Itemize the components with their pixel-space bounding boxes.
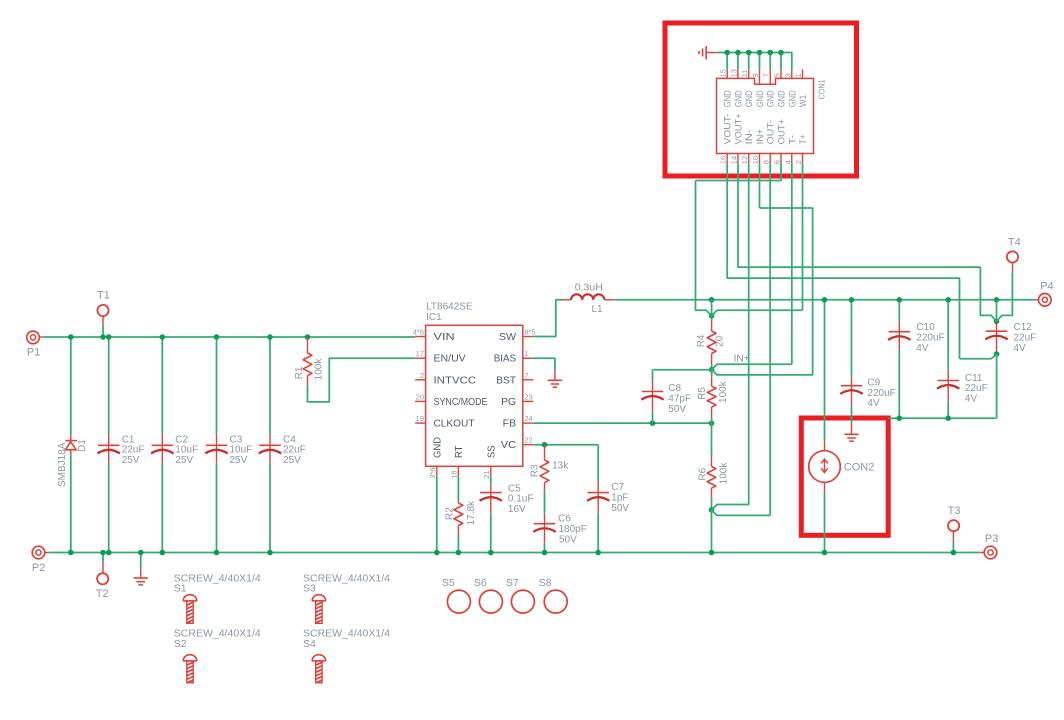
screw S1 <box>174 573 261 624</box>
svg-text:S8: S8 <box>539 577 552 589</box>
op-amp U1 IC1 LT8642SE body <box>426 302 523 467</box>
svg-text:10: 10 <box>751 156 760 164</box>
svg-text:14: 14 <box>729 156 738 164</box>
svg-text:25V: 25V <box>175 455 193 466</box>
svg-text:18: 18 <box>450 470 459 478</box>
mount hole S5 <box>442 577 471 613</box>
svg-text:T2: T2 <box>96 588 109 600</box>
svg-text:SCREW_4/40X1/4: SCREW_4/40X1/4 <box>303 573 390 585</box>
screw S3 <box>303 573 390 624</box>
svg-text:2: 2 <box>420 371 424 380</box>
svg-text:BIAS: BIAS <box>494 354 517 365</box>
svg-text:S6: S6 <box>474 577 487 589</box>
svg-text:CON2: CON2 <box>844 461 875 473</box>
svg-text:S3: S3 <box>303 583 316 595</box>
node R4 top funnel <box>696 181 803 319</box>
svg-text:C12: C12 <box>1014 322 1033 333</box>
wire VOUT+ net (pin14) <box>738 163 980 267</box>
node C12 top funnel <box>980 267 1012 324</box>
wire FB net <box>533 420 714 426</box>
svg-text:P3: P3 <box>985 533 998 545</box>
svg-text:50V: 50V <box>668 404 686 415</box>
svg-text:GND: GND <box>777 90 787 107</box>
svg-text:7: 7 <box>524 371 528 380</box>
svg-text:12: 12 <box>740 156 749 164</box>
svg-text:D1: D1 <box>77 439 88 452</box>
svg-text:17: 17 <box>416 349 424 358</box>
svg-text:50V: 50V <box>559 534 577 545</box>
svg-text:S1: S1 <box>174 583 187 595</box>
svg-text:S5: S5 <box>442 577 455 589</box>
connector P3 <box>980 533 999 559</box>
capacitor C5 0.1uF <box>480 477 534 556</box>
svg-text:GND: GND <box>733 90 743 107</box>
svg-text:T+: T+ <box>798 134 808 144</box>
screw S4 <box>303 628 390 683</box>
capacitor C11 22uF <box>937 297 988 421</box>
svg-text:1pF: 1pF <box>611 492 628 503</box>
svg-text:VOUT-: VOUT- <box>723 113 733 144</box>
svg-text:R4: R4 <box>696 334 707 347</box>
svg-text:100k: 100k <box>314 358 325 381</box>
svg-text:FB: FB <box>503 419 517 430</box>
svg-text:VOUT+: VOUT+ <box>733 113 743 144</box>
test point T3 <box>948 505 961 555</box>
svg-text:C1: C1 <box>122 434 135 445</box>
capacitor C3 <box>205 334 252 555</box>
ground GND4 at CON1 <box>699 46 717 59</box>
svg-text:GND: GND <box>755 90 765 107</box>
svg-text:13: 13 <box>729 69 738 77</box>
svg-text:4*6: 4*6 <box>413 328 424 337</box>
svg-text:P1: P1 <box>27 347 40 359</box>
svg-text:P4: P4 <box>1040 281 1053 293</box>
svg-text:25V: 25V <box>283 455 301 466</box>
CON2 highlight box <box>801 418 888 535</box>
svg-text:S2: S2 <box>174 638 187 650</box>
svg-text:EN/UV: EN/UV <box>434 354 467 365</box>
svg-text:24: 24 <box>524 414 532 423</box>
svg-text:4V: 4V <box>965 394 978 405</box>
wire VOUT to CON2 <box>822 297 828 440</box>
svg-text:R3: R3 <box>529 464 540 477</box>
svg-text:GND: GND <box>723 90 733 107</box>
svg-text:7: 7 <box>762 73 771 77</box>
svg-text:PG: PG <box>501 397 516 408</box>
diode D1 SMBJ18A <box>57 334 88 555</box>
connector P2 <box>32 546 49 574</box>
CON1 highlight box <box>665 23 857 176</box>
wire T- net (pin4) <box>791 163 793 364</box>
svg-text:IN+: IN+ <box>734 354 750 365</box>
wire OUT+ net (pin6) <box>696 163 782 180</box>
svg-text:R1: R1 <box>294 366 305 379</box>
svg-text:C5: C5 <box>508 483 521 494</box>
capacitor C4 <box>259 334 306 555</box>
connector P1 <box>27 331 44 359</box>
svg-text:16: 16 <box>719 156 728 164</box>
svg-text:R2: R2 <box>444 507 455 520</box>
svg-text:GND: GND <box>432 437 443 458</box>
svg-text:SS: SS <box>486 445 497 458</box>
svg-text:100k: 100k <box>718 380 729 403</box>
resistor R4 20 <box>696 316 726 370</box>
ground GND1 <box>134 550 148 585</box>
svg-text:GND: GND <box>744 90 754 107</box>
svg-text:22: 22 <box>524 436 532 445</box>
capacitor C9 220uF <box>840 297 895 423</box>
svg-text:0.3uH: 0.3uH <box>575 281 603 293</box>
svg-text:SMBJ18A: SMBJ18A <box>57 442 68 487</box>
svg-text:IC1: IC1 <box>426 312 442 323</box>
svg-text:P2: P2 <box>32 562 45 574</box>
test point T2 <box>96 550 109 600</box>
svg-text:4V: 4V <box>1014 343 1027 354</box>
svg-text:C9: C9 <box>867 377 880 388</box>
svg-text:SCREW_4/40X1/4: SCREW_4/40X1/4 <box>303 628 390 640</box>
svg-text:S7: S7 <box>506 577 519 589</box>
wire VOUT rail <box>614 299 1035 301</box>
svg-text:1: 1 <box>794 73 803 77</box>
svg-text:SCREW_4/40X1/4: SCREW_4/40X1/4 <box>174 573 261 585</box>
test point T4 <box>1007 237 1021 273</box>
svg-text:IN-: IN- <box>744 129 754 144</box>
connector CON1 body <box>717 78 827 153</box>
svg-text:C3: C3 <box>230 434 243 445</box>
IC1 right pins <box>494 328 536 452</box>
wire IN- net (pin12) <box>748 163 750 504</box>
svg-text:47pF: 47pF <box>668 393 691 404</box>
svg-text:3: 3 <box>783 73 792 77</box>
capacitor C10 220uF <box>888 297 945 421</box>
wire BIAS to ground <box>533 358 555 370</box>
svg-text:4V: 4V <box>867 398 880 409</box>
svg-text:VC: VC <box>501 440 516 451</box>
svg-text:22uF: 22uF <box>122 445 145 456</box>
svg-text:SW: SW <box>499 332 517 343</box>
wire IC1 GND pin <box>434 477 440 556</box>
wire OUT- net (pin8) <box>769 163 771 515</box>
svg-text:C10: C10 <box>916 322 935 333</box>
capacitor C2 <box>151 334 198 555</box>
svg-text:20: 20 <box>714 335 725 347</box>
wire VOUT- lower rail <box>888 417 996 419</box>
connector CON2 <box>809 440 875 492</box>
svg-text:C11: C11 <box>965 373 983 384</box>
svg-text:13k: 13k <box>552 460 569 471</box>
svg-text:22uF: 22uF <box>283 445 306 456</box>
svg-text:5: 5 <box>773 73 782 77</box>
svg-text:220uF: 220uF <box>916 332 944 343</box>
resistor R1 100k <box>294 334 325 385</box>
resistor R5 100k <box>697 370 729 424</box>
svg-text:C7: C7 <box>611 482 624 493</box>
svg-text:1: 1 <box>524 349 528 358</box>
svg-text:10uF: 10uF <box>175 445 198 456</box>
svg-text:INTVCC: INTVCC <box>434 375 477 386</box>
wire GND bottom rail <box>49 552 980 554</box>
connector P4 <box>1035 281 1054 307</box>
svg-text:OUT-: OUT- <box>766 119 776 144</box>
svg-text:17.8k: 17.8k <box>466 500 477 525</box>
wire SW to L1 <box>533 300 563 337</box>
ground GND2 at BIAS <box>548 370 562 387</box>
resistor R3 13k <box>529 445 569 514</box>
svg-text:25V: 25V <box>230 455 248 466</box>
svg-text:W1: W1 <box>798 95 808 108</box>
svg-text:IN+: IN+ <box>755 129 765 145</box>
svg-text:0.1uF: 0.1uF <box>508 494 534 505</box>
svg-text:180pF: 180pF <box>559 524 587 535</box>
wire VOUT- net (pin16) <box>727 163 959 358</box>
svg-text:4: 4 <box>783 160 792 164</box>
svg-text:T-: T- <box>787 135 797 145</box>
node C12 bottom funnel <box>960 354 997 418</box>
wire T+ net (pin2) <box>802 163 804 310</box>
svg-text:C2: C2 <box>175 434 188 445</box>
svg-text:T4: T4 <box>1008 237 1021 249</box>
svg-text:BST: BST <box>496 375 516 386</box>
svg-text:19: 19 <box>416 414 424 423</box>
svg-text:C6: C6 <box>558 514 571 525</box>
resistor R6 100k <box>698 423 730 510</box>
svg-text:21: 21 <box>482 470 491 478</box>
capacitor C12 22uF <box>985 321 1036 356</box>
mount hole S7 <box>506 577 535 613</box>
wire R1 to EN/UV <box>308 358 416 402</box>
svg-text:T1: T1 <box>97 289 110 301</box>
mount hole S8 <box>539 577 568 613</box>
svg-text:SYNC/MODE: SYNC/MODE <box>434 397 488 408</box>
inductor L1 0.3uH <box>561 281 614 315</box>
svg-text:GND: GND <box>787 90 797 107</box>
svg-text:CLKOUT: CLKOUT <box>434 419 475 430</box>
svg-text:23: 23 <box>524 392 532 401</box>
svg-text:GND: GND <box>766 90 776 107</box>
CON1 top pins <box>719 69 808 107</box>
svg-text:15: 15 <box>719 69 728 77</box>
IC1 left pins <box>413 328 488 430</box>
mount hole S6 <box>474 577 503 613</box>
CON1 bottom pins <box>719 113 808 164</box>
wire VC net <box>533 442 598 448</box>
svg-text:8*5: 8*5 <box>524 328 535 337</box>
svg-text:220uF: 220uF <box>867 388 895 399</box>
svg-text:T3: T3 <box>948 505 961 517</box>
svg-text:RT: RT <box>454 446 465 458</box>
svg-text:16V: 16V <box>508 504 526 515</box>
resistor R2 17.8k <box>444 477 477 556</box>
node R6 bottom funnel <box>709 505 771 556</box>
svg-text:22uF: 22uF <box>965 383 988 394</box>
capacitor C7 1pF <box>587 445 629 556</box>
svg-text:VIN: VIN <box>434 332 455 343</box>
svg-text:25V: 25V <box>122 455 140 466</box>
capacitor C6 180pF <box>533 514 587 556</box>
svg-text:4V: 4V <box>916 343 929 354</box>
svg-text:20: 20 <box>416 392 424 401</box>
svg-text:L1: L1 <box>592 304 604 315</box>
test point T1 <box>97 289 110 340</box>
svg-text:9: 9 <box>751 73 760 77</box>
screw S2 <box>174 628 261 683</box>
svg-text:R6: R6 <box>698 467 709 480</box>
capacitor C8 47pF <box>641 370 711 423</box>
svg-text:SCREW_4/40X1/4: SCREW_4/40X1/4 <box>174 628 261 640</box>
svg-text:C8: C8 <box>668 383 681 394</box>
ground GND3 at C9 <box>844 423 858 441</box>
node IN+ funnel <box>709 208 813 375</box>
wire IN+ net (pin10) <box>759 163 761 208</box>
wire CON2 to GND rail <box>822 493 828 556</box>
svg-text:50V: 50V <box>611 503 629 514</box>
svg-text:3*6: 3*6 <box>428 468 437 479</box>
svg-text:10uF: 10uF <box>230 445 253 456</box>
svg-text:S4: S4 <box>303 638 316 650</box>
svg-text:OUT+: OUT+ <box>777 119 787 145</box>
svg-text:C4: C4 <box>283 434 296 445</box>
svg-text:R5: R5 <box>697 387 708 400</box>
svg-text:100k: 100k <box>719 462 730 485</box>
svg-text:22uF: 22uF <box>1014 332 1037 343</box>
svg-text:11: 11 <box>740 70 749 78</box>
IC1 bottom pins <box>428 437 497 479</box>
svg-text:CON1: CON1 <box>817 79 827 99</box>
wire VIN top rail <box>44 336 415 338</box>
capacitor C1 <box>98 334 145 555</box>
wire CON1 ground bus <box>717 50 792 70</box>
